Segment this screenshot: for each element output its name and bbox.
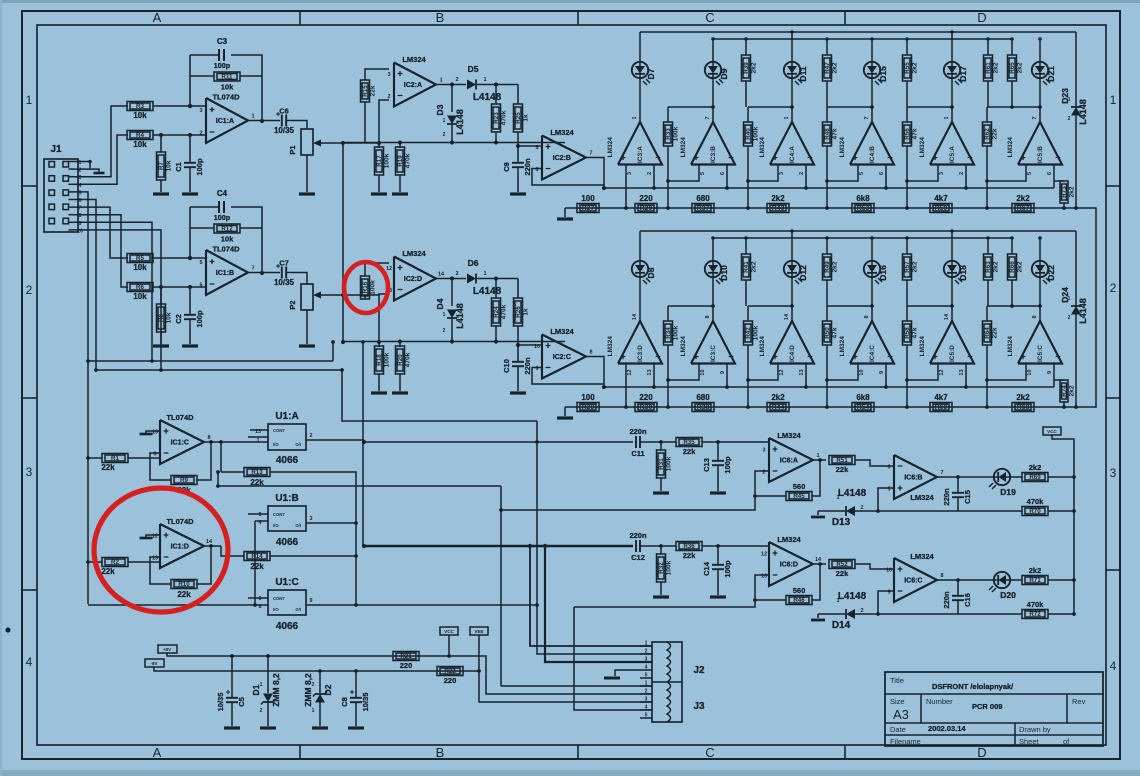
wire IC5:C +input <box>987 364 1026 381</box>
svg-text:4k7: 4k7 <box>934 194 948 203</box>
svg-text:4: 4 <box>645 665 648 671</box>
svg-text:C6: C6 <box>279 107 289 116</box>
svg-text:2: 2 <box>455 77 458 83</box>
svg-text:IC2:C: IC2:C <box>553 354 571 361</box>
svg-text:2: 2 <box>1068 315 1071 321</box>
svg-text:VCC: VCC <box>444 629 454 634</box>
svg-text:R9: R9 <box>180 477 188 484</box>
wire bus to J3 pin1 <box>501 685 652 687</box>
svg-text:LM324: LM324 <box>402 55 426 64</box>
svg-text:1: 1 <box>483 271 486 277</box>
svg-text:R15: R15 <box>362 85 369 97</box>
svg-text:2k2: 2k2 <box>832 62 839 73</box>
svg-text:−: − <box>1055 153 1060 163</box>
wire IC2:D out to D6 <box>436 278 466 280</box>
wire P1 to ground <box>306 155 308 192</box>
svg-text:LM324: LM324 <box>1007 137 1014 158</box>
svg-text:R36: R36 <box>683 543 695 550</box>
svg-text:−: − <box>545 363 550 373</box>
LED D11 <box>784 62 800 78</box>
resistor R29 220 <box>635 204 657 213</box>
svg-text:470k: 470k <box>1027 497 1045 506</box>
resistor R54 6k8 <box>852 403 874 412</box>
svg-text:R72: R72 <box>1029 611 1041 618</box>
wire IC3:C -input <box>726 364 728 388</box>
svg-text:7: 7 <box>864 116 870 119</box>
svg-text:L4148: L4148 <box>1078 99 1088 125</box>
svg-text:Title: Title <box>890 676 904 685</box>
resistor R39 2k2 vertical <box>742 55 751 81</box>
diode D13 L4148 <box>846 506 855 516</box>
wire IC5:C -input <box>1053 364 1055 388</box>
-8V rail wire <box>154 667 464 671</box>
wire C7 to P2 <box>287 273 307 285</box>
wire R35 to op-amp <box>702 441 769 443</box>
svg-text:U1:A: U1:A <box>275 411 298 422</box>
wire R13 to switch bus <box>270 472 356 605</box>
svg-text:D5: D5 <box>468 64 479 74</box>
svg-text:1: 1 <box>256 438 259 444</box>
wire R50 top link <box>827 305 872 307</box>
svg-text:220: 220 <box>444 676 457 685</box>
svg-text:C7: C7 <box>279 259 289 268</box>
svg-text:+: + <box>932 153 937 163</box>
resistor R44 2k2 <box>767 403 789 412</box>
ground D2 <box>312 726 328 729</box>
resistor R46 560 feedback <box>812 564 820 600</box>
resistor R74 2k2 vertical <box>1060 380 1068 402</box>
svg-text:3: 3 <box>387 72 390 78</box>
wire R56 top link <box>907 106 952 108</box>
svg-text:680: 680 <box>696 393 710 402</box>
ground D1 <box>260 726 276 729</box>
ground R20 <box>392 391 408 394</box>
zener D1 ZMM 8,2 <box>267 656 269 693</box>
svg-text:220: 220 <box>639 194 653 203</box>
resistor R68 2k2 <box>1012 403 1034 412</box>
wire R14 row <box>221 546 244 556</box>
resistor R37 680 <box>692 204 714 213</box>
svg-text:3: 3 <box>627 172 633 175</box>
bus wire below IC2:A <box>343 142 565 144</box>
svg-text:470k: 470k <box>1027 600 1045 609</box>
wire U1:B CONT in <box>248 513 268 515</box>
svg-text:10/35: 10/35 <box>216 693 225 712</box>
title block <box>885 672 1103 746</box>
svg-text:D: D <box>977 10 986 25</box>
op-amp IC1:A <box>206 98 248 143</box>
wire LED D8 cathode to op-amp <box>639 277 641 321</box>
svg-text:10: 10 <box>886 568 892 574</box>
svg-text:R59: R59 <box>935 205 948 212</box>
wire IC3:A -input <box>653 165 655 189</box>
svg-text:−: − <box>655 153 660 163</box>
svg-text:IC6:C: IC6:C <box>904 578 922 585</box>
svg-text:22k: 22k <box>177 590 191 599</box>
resistor R45 560 feedback <box>812 460 820 496</box>
svg-text:10: 10 <box>152 430 158 436</box>
svg-text:14: 14 <box>784 313 790 320</box>
svg-text:I/O: I/O <box>273 523 279 528</box>
svg-text:−: − <box>887 153 892 163</box>
svg-text:I/O: I/O <box>273 442 279 447</box>
svg-text:−: − <box>397 285 402 295</box>
resistor R25 1k vertical <box>517 85 519 105</box>
wire IC1:D feedback R10 <box>150 557 171 584</box>
resistor R56 47k vertical <box>903 122 912 146</box>
svg-text:100p: 100p <box>195 310 204 328</box>
svg-text:2: 2 <box>455 271 458 277</box>
svg-text:−: − <box>967 352 972 362</box>
svg-text:+: + <box>772 548 777 558</box>
svg-text:100k: 100k <box>673 126 680 141</box>
svg-text:A3: A3 <box>893 707 909 722</box>
ground C13 <box>710 491 726 494</box>
svg-text:2: 2 <box>860 505 863 511</box>
wire R1 to IC1:C <box>128 457 160 459</box>
svg-text:U1:C: U1:C <box>275 577 298 588</box>
resistor R41 2k2 vertical <box>742 254 751 280</box>
svg-text:6: 6 <box>258 596 261 602</box>
ground R17 <box>371 192 387 195</box>
svg-text:3: 3 <box>309 516 312 522</box>
wire R5 to op-amp <box>153 257 206 259</box>
svg-text:Sheet: Sheet <box>1019 737 1040 746</box>
svg-text:R55: R55 <box>904 62 911 74</box>
svg-text:IC2:B: IC2:B <box>553 155 571 162</box>
resistor R47 2k2 vertical <box>823 55 832 81</box>
top supply bus <box>640 230 1076 232</box>
svg-text:R7: R7 <box>158 161 165 169</box>
svg-text:O/I: O/I <box>295 442 301 447</box>
svg-text:R29: R29 <box>640 205 653 212</box>
wire IC6:D output <box>813 563 826 565</box>
wire feedback loop IC1:B <box>189 207 191 258</box>
svg-text:100p: 100p <box>214 213 231 222</box>
wire R15 to +input <box>364 102 366 143</box>
wire IC6:C output to D20 <box>937 579 994 581</box>
wire LED D10 anode <box>712 238 714 261</box>
svg-text:C11: C11 <box>631 449 644 458</box>
svg-text:LM324: LM324 <box>607 336 614 357</box>
resistor R72 470k <box>958 613 1022 615</box>
op-amp IC4:A <box>770 122 814 165</box>
resistor R16 100k vertical (red circled) <box>361 276 370 299</box>
svg-text:100: 100 <box>581 393 595 402</box>
diode D23 L4148 vertical <box>1075 32 1077 107</box>
wire IC3:A +input <box>625 165 627 209</box>
capacitor C2 100p <box>189 287 191 314</box>
svg-text:IC6:A: IC6:A <box>780 458 798 465</box>
potentiometer P1 <box>301 129 313 155</box>
LED D15 <box>864 62 880 78</box>
svg-text:2k2: 2k2 <box>993 261 1000 272</box>
svg-text:7: 7 <box>940 470 943 476</box>
wire LED D21 cathode to op-amp <box>1039 78 1041 122</box>
wire D5 to R23 R25 <box>477 84 518 86</box>
wire IC1:C feedback R9 <box>150 453 171 480</box>
svg-text:+: + <box>852 153 857 163</box>
wire R72 to trunk <box>1048 613 1074 615</box>
svg-text:Size: Size <box>890 697 905 706</box>
potentiometer P2 <box>301 284 313 310</box>
resistor R33 100k vertical <box>664 122 673 146</box>
svg-text:22k: 22k <box>836 465 849 474</box>
ground P1 <box>299 192 315 195</box>
svg-text:+: + <box>772 444 777 454</box>
wire J1 pin8 to R6 <box>74 215 128 287</box>
svg-text:R45: R45 <box>793 493 805 500</box>
resistor R1 22k <box>88 457 102 459</box>
+8V power box <box>158 645 177 653</box>
diode D4 vertical <box>451 279 453 307</box>
resistor R14 22k <box>244 552 270 561</box>
reference chain bus <box>565 207 1076 209</box>
LED D22 <box>1032 261 1048 277</box>
svg-text:R11: R11 <box>221 74 233 81</box>
wire IC2:B feedback <box>532 169 604 186</box>
svg-text:8: 8 <box>589 350 592 356</box>
svg-text:47k: 47k <box>832 327 839 338</box>
svg-text:12: 12 <box>939 369 945 375</box>
signal bus from rectifier <box>604 386 1054 388</box>
svg-text:D19: D19 <box>1000 487 1016 497</box>
resistor R10 22k <box>171 580 197 589</box>
op-amp IC5:A <box>930 122 974 165</box>
svg-text:2k2: 2k2 <box>751 62 758 73</box>
svg-text:10/35: 10/35 <box>274 126 295 135</box>
svg-text:1: 1 <box>260 682 263 688</box>
-8V power box <box>145 659 164 667</box>
wire R6 to op-amp <box>153 286 206 288</box>
op-amp IC2:A <box>394 63 436 107</box>
svg-text:14: 14 <box>944 313 950 320</box>
svg-text:100p: 100p <box>723 560 732 578</box>
wire IC1:A output to C6 <box>248 120 280 122</box>
svg-text:CONT: CONT <box>273 428 285 433</box>
svg-text:1: 1 <box>312 708 315 714</box>
svg-text:+: + <box>209 104 214 114</box>
svg-text:2k2: 2k2 <box>912 62 919 73</box>
svg-text:4: 4 <box>1110 659 1117 673</box>
svg-text:470k: 470k <box>501 304 508 319</box>
wire C11 to R35 <box>640 441 676 443</box>
svg-text:CONT: CONT <box>273 512 285 517</box>
wire R3 to op-amp <box>153 105 206 107</box>
svg-text:7: 7 <box>1032 116 1038 119</box>
svg-text:10k: 10k <box>166 160 173 171</box>
svg-text:+: + <box>620 153 625 163</box>
svg-text:1: 1 <box>1068 97 1071 103</box>
resistor R57 2k2 vertical <box>903 254 912 280</box>
svg-text:C8: C8 <box>340 697 349 707</box>
svg-text:R27: R27 <box>582 205 595 212</box>
wire J1 pin1-2 <box>74 162 90 170</box>
svg-text:−: − <box>728 352 733 362</box>
VCC box bottom <box>440 627 458 635</box>
svg-text:2k2: 2k2 <box>912 261 919 272</box>
svg-text:2: 2 <box>443 132 446 138</box>
svg-text:R2: R2 <box>111 559 119 566</box>
capacitor C6 10/35 <box>281 115 283 127</box>
svg-text:C2: C2 <box>174 314 183 324</box>
wire U1:B output <box>306 522 356 524</box>
svg-text:LM324: LM324 <box>839 336 846 357</box>
svg-text:5: 5 <box>258 512 261 518</box>
ground C10 <box>510 391 526 394</box>
svg-text:R18: R18 <box>376 354 383 366</box>
IC1:C ground stub <box>146 431 160 433</box>
wire LED D10 cathode to op-amp <box>712 277 714 321</box>
svg-text:R65: R65 <box>1009 62 1016 74</box>
svg-text:R17: R17 <box>376 155 383 167</box>
svg-text:100k: 100k <box>673 325 680 340</box>
svg-text:470k: 470k <box>405 352 412 367</box>
resistor R36 22k <box>676 542 702 551</box>
svg-text:D15: D15 <box>878 66 888 82</box>
svg-text:R64: R64 <box>984 327 991 339</box>
svg-text:D16: D16 <box>878 265 888 281</box>
svg-text:R5: R5 <box>136 255 144 262</box>
svg-text:6: 6 <box>1047 172 1053 175</box>
connector J2 J3 box <box>652 642 682 722</box>
wire U1:B I/O in <box>255 520 268 522</box>
top supply bus <box>640 31 1076 33</box>
wire R25 to IC2:B +input <box>518 145 542 147</box>
wire R64 top link <box>987 305 1040 307</box>
wire IC6:D -input <box>755 575 769 600</box>
wire input line to C11 <box>364 441 619 443</box>
svg-text:9: 9 <box>720 371 726 374</box>
resistor R19 470k vertical <box>399 143 401 148</box>
resistor R8 10k vertical <box>157 304 166 332</box>
svg-text:22k: 22k <box>250 562 264 571</box>
wire LED D12 cathode to op-amp <box>791 277 793 321</box>
svg-text:O/I: O/I <box>295 523 301 528</box>
svg-text:22k: 22k <box>992 128 999 139</box>
capacitor C5 10/35 <box>231 656 233 697</box>
svg-text:2: 2 <box>647 172 653 175</box>
svg-text:IC1:D: IC1:D <box>171 544 189 551</box>
svg-text:R34: R34 <box>665 327 672 339</box>
drop to J2 pin2 <box>537 421 652 654</box>
svg-text:I/O: I/O <box>273 607 279 612</box>
svg-text:-8V: -8V <box>150 661 158 666</box>
svg-text:22k: 22k <box>370 85 377 96</box>
svg-text:+: + <box>545 341 550 351</box>
capacitor C12 220n <box>635 540 637 552</box>
svg-text:100k: 100k <box>666 456 673 471</box>
svg-text:C5: C5 <box>237 697 246 707</box>
svg-text:LM324: LM324 <box>839 137 846 158</box>
wire R14 to switch bus <box>270 555 356 557</box>
svg-text:8: 8 <box>705 315 711 318</box>
svg-text:R19: R19 <box>397 155 404 167</box>
svg-text:D20: D20 <box>1000 590 1016 600</box>
wire J1 pin4 to R4 <box>74 135 128 184</box>
svg-text:14: 14 <box>438 272 445 278</box>
wire thick bus to J2 pin1 <box>530 546 652 646</box>
wire LED D9 cathode to op-amp <box>712 78 714 122</box>
svg-text:220n: 220n <box>523 158 532 176</box>
svg-text:IC1:A: IC1:A <box>216 118 234 125</box>
svg-text:7: 7 <box>589 151 592 157</box>
svg-text:22k: 22k <box>836 569 849 578</box>
svg-text:220: 220 <box>400 661 413 670</box>
svg-text:10: 10 <box>859 369 865 375</box>
vertical link bus <box>342 143 344 342</box>
svg-text:100k: 100k <box>666 560 673 575</box>
LED D16 <box>864 261 880 277</box>
svg-text:B: B <box>436 10 445 25</box>
svg-text:1: 1 <box>632 116 638 119</box>
wire J1 pin9 down <box>74 222 152 361</box>
resistor R34 100k vertical <box>664 321 673 345</box>
wire LED D8 anode <box>639 231 641 261</box>
svg-text:5: 5 <box>199 260 202 266</box>
wire J1 pin5 down-left bus <box>74 192 88 361</box>
svg-text:2: 2 <box>387 94 390 100</box>
svg-text:1: 1 <box>26 93 33 107</box>
svg-text:680: 680 <box>696 194 710 203</box>
resistor R65 2k2 vertical <box>1008 55 1017 81</box>
svg-text:Filename: Filename <box>890 737 921 746</box>
svg-text:2: 2 <box>312 682 315 688</box>
wire IC5:B -input <box>1053 165 1055 189</box>
LED D21 <box>1032 62 1048 78</box>
wire R52 to IC6:C -input <box>855 564 894 569</box>
svg-text:D14: D14 <box>832 620 851 631</box>
svg-text:−: − <box>545 164 550 174</box>
svg-text:22k: 22k <box>683 447 696 456</box>
svg-text:5: 5 <box>535 145 538 151</box>
resistor R13 22k <box>244 468 270 477</box>
svg-text:+: + <box>1020 352 1025 362</box>
wire R70 to trunk <box>1048 510 1074 512</box>
resistor R50 47k vertical <box>823 321 832 345</box>
wire LED D16 cathode to op-amp <box>871 277 873 321</box>
svg-text:R46: R46 <box>793 597 805 604</box>
wire IC3:C +input <box>668 364 699 381</box>
wire IC1:B output to C7 <box>248 272 280 274</box>
resistor R23 470k vertical <box>495 85 497 105</box>
connector J1 <box>44 159 78 232</box>
svg-text:9: 9 <box>1047 371 1053 374</box>
svg-text:10: 10 <box>1027 369 1033 375</box>
svg-text:3: 3 <box>939 172 945 175</box>
diode D5 L4148 <box>467 80 476 90</box>
svg-text:12: 12 <box>779 369 785 375</box>
svg-text:1: 1 <box>443 312 446 318</box>
svg-text:C: C <box>705 10 714 25</box>
diode D3 vertical <box>451 85 453 113</box>
red circle annotation around IC1:D <box>94 488 228 612</box>
svg-text:D3: D3 <box>435 104 445 115</box>
wire U1:A I/O in <box>248 436 268 438</box>
svg-text:IC5:C: IC5:C <box>1037 345 1044 362</box>
svg-text:1: 1 <box>443 118 446 124</box>
svg-text:D6: D6 <box>468 258 479 268</box>
wire U1:A CONT <box>250 429 268 431</box>
wire LED D11 anode <box>791 32 793 62</box>
svg-text:A: A <box>153 10 162 25</box>
svg-text:1: 1 <box>483 77 486 83</box>
wire IC1:D output <box>204 545 221 547</box>
svg-text:4: 4 <box>26 655 33 669</box>
svg-text:−: − <box>772 570 777 580</box>
svg-text:470k: 470k <box>501 110 508 125</box>
svg-text:+: + <box>209 256 214 266</box>
